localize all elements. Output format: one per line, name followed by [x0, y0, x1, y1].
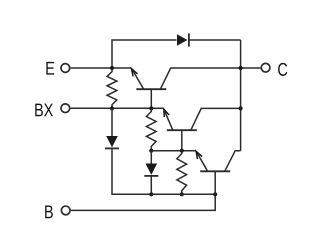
terminal label E [46, 62, 54, 75]
transistor Q2 base wire [181, 130, 183, 151]
node R1 bottom junction [110, 106, 114, 110]
node R2 bottom junction [149, 149, 153, 153]
wire D1 to bottom row [112, 148, 151, 194]
transistor Q3 base wire [214, 171, 216, 194]
resistor R1 [107, 68, 117, 108]
wire C node to terminal [241, 67, 261, 69]
transistor Q2 emitter [165, 111, 173, 130]
terminal label BX [35, 104, 53, 117]
node D3 bottom junction [149, 192, 153, 196]
node row3 Q2 base junction [180, 149, 184, 153]
diode D3 cathode bar [144, 175, 158, 177]
terminal C circle [261, 63, 270, 72]
terminal E circle [61, 64, 70, 73]
diode D4 triangle [177, 34, 187, 46]
wire E terminal to node [71, 67, 132, 69]
terminal label C [278, 63, 287, 76]
wire bottom row right segment [151, 193, 215, 195]
terminal BX circle [61, 104, 70, 113]
wire top rail left segment [112, 40, 177, 68]
wire BX terminal to Q2 emitter [71, 107, 164, 109]
transistor Q1 emitter arrow [132, 69, 138, 77]
transistor Q3 emitter [197, 153, 208, 171]
wire top rail right segment [189, 39, 241, 41]
transistor Q1 base wire [150, 89, 152, 108]
resistor R3 [177, 151, 187, 195]
wire right collector rail [240, 40, 242, 151]
transistor Q1 base bar [136, 88, 166, 90]
terminal B circle [61, 206, 70, 215]
diode D3 triangle [146, 164, 158, 175]
transistor Q3 base bar [200, 170, 230, 172]
wire B terminal to Q3 base column [71, 194, 215, 210]
wire BX node to diode D1 [111, 108, 113, 136]
diode D4 cathode bar [188, 33, 190, 46]
transistor Q2 emitter arrow [164, 109, 169, 117]
transistor Q3 collector [225, 151, 241, 172]
transistor Q1 emitter [133, 70, 144, 89]
wire row3 [151, 150, 196, 152]
resistor R2 [146, 108, 156, 150]
node R3 bottom junction [180, 192, 184, 196]
node Q2 collector rail junction [239, 106, 243, 110]
wire D3 top lead [150, 151, 152, 164]
diode D1 triangle [106, 136, 118, 147]
terminal label B [45, 205, 53, 218]
node BX junction [149, 106, 153, 110]
transistor Q1 collector [160, 68, 240, 89]
node B junction [213, 192, 217, 196]
transistor Q2 collector [191, 108, 241, 130]
node E junction [110, 66, 114, 70]
diode D1 cathode bar [105, 147, 119, 149]
node C junction [239, 66, 243, 70]
transistor Q2 base bar [167, 129, 197, 131]
wire D3 to bottom row [150, 176, 152, 194]
transistor Q3 emitter arrow [196, 151, 202, 159]
